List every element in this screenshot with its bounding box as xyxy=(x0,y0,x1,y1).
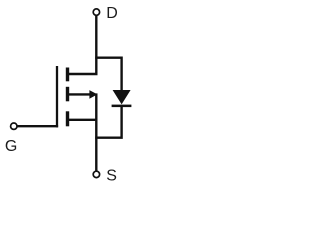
diode cathode bar xyxy=(112,105,132,108)
gate electrode line of Q1 xyxy=(56,66,58,127)
channel bar 3 (source segment) of Q1 xyxy=(66,111,69,126)
wire: branch from drain to body diode anode xyxy=(95,58,121,91)
terminal G circle xyxy=(11,123,17,129)
terminal D circle xyxy=(93,9,99,15)
svg-text:G: G xyxy=(5,138,17,155)
wire: diode cathode down to source node xyxy=(95,107,121,138)
wire: drain stub to channel bar 1 xyxy=(69,73,98,75)
wire: body arrow lead xyxy=(69,93,91,95)
wire: source vertical to terminal S xyxy=(95,93,97,170)
svg-text:D: D xyxy=(106,5,118,22)
terminal S circle xyxy=(93,171,99,177)
wire: drain vertical from terminal D xyxy=(95,16,97,74)
wire: gate lead to terminal G xyxy=(17,125,58,127)
channel bar 2 (body segment) of Q1 xyxy=(66,87,69,102)
body arrowhead pointing right xyxy=(89,90,97,99)
wire: source stub to channel bar 3 xyxy=(69,119,98,121)
svg-text:S: S xyxy=(106,167,117,184)
channel bar 1 (drain segment) of Q1 xyxy=(66,68,69,82)
body diode triangle (anode top, pointing down) xyxy=(113,90,131,104)
